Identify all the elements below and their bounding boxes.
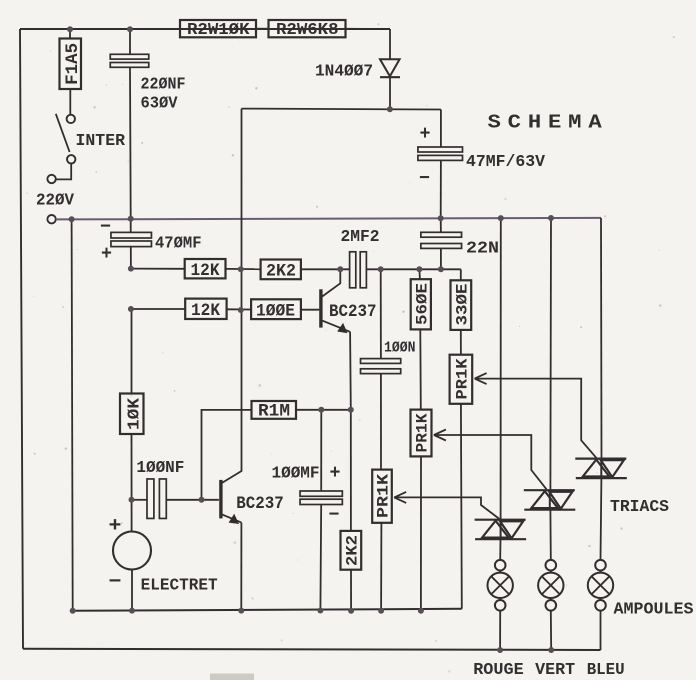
svg-text:1ØØE: 1ØØE	[256, 302, 295, 322]
svg-text:R2W1ØK: R2W1ØK	[187, 21, 250, 40]
svg-text:2K2: 2K2	[266, 262, 296, 282]
svg-text:22ØNF: 22ØNF	[141, 76, 186, 95]
svg-text:1ØØMF: 1ØØMF	[272, 465, 320, 484]
svg-text:PR1K: PR1K	[414, 413, 432, 452]
svg-text:+: +	[101, 243, 112, 265]
svg-text:1ØØN: 1ØØN	[384, 340, 416, 357]
svg-text:+: +	[420, 123, 431, 145]
svg-text:ROUGE: ROUGE	[473, 661, 524, 680]
svg-text:1N4ØØ7: 1N4ØØ7	[315, 63, 373, 82]
svg-text:−: −	[329, 504, 340, 526]
svg-text:F1A5: F1A5	[63, 43, 83, 85]
svg-text:BC237: BC237	[329, 302, 377, 322]
svg-text:56ØE: 56ØE	[414, 283, 432, 325]
svg-text:BLEU: BLEU	[587, 661, 625, 680]
svg-text:R2W6K8: R2W6K8	[276, 21, 339, 40]
svg-text:TRIACS: TRIACS	[610, 498, 669, 517]
svg-text:SCHEMA: SCHEMA	[488, 112, 609, 134]
svg-text:ELECTRET: ELECTRET	[141, 577, 218, 596]
svg-text:47MF/63V: 47MF/63V	[466, 153, 546, 172]
svg-text:BC237: BC237	[236, 494, 283, 514]
svg-text:12K: 12K	[191, 301, 220, 321]
svg-text:1ØØNF: 1ØØNF	[136, 459, 184, 478]
svg-text:22N: 22N	[466, 240, 499, 259]
svg-text:AMPOULES: AMPOULES	[614, 600, 694, 619]
svg-text:33ØE: 33ØE	[454, 284, 472, 326]
svg-text:PR1K: PR1K	[454, 358, 472, 399]
svg-text:63ØV: 63ØV	[141, 95, 179, 114]
svg-text:22ØV: 22ØV	[36, 192, 75, 211]
svg-text:+: +	[109, 515, 122, 538]
svg-text:INTER: INTER	[76, 131, 126, 150]
svg-text:−: −	[100, 216, 111, 238]
svg-text:VERT: VERT	[535, 661, 575, 680]
svg-text:12K: 12K	[191, 261, 220, 281]
svg-text:PR1K: PR1K	[375, 473, 393, 518]
svg-text:2K2: 2K2	[344, 535, 362, 566]
svg-text:−: −	[109, 571, 122, 594]
svg-text:−: −	[419, 168, 430, 190]
svg-text:1ØK: 1ØK	[125, 397, 144, 430]
svg-text:2MF2: 2MF2	[341, 228, 380, 247]
svg-text:47ØMF: 47ØMF	[155, 235, 202, 254]
svg-text:+: +	[330, 462, 341, 484]
svg-text:R1M: R1M	[258, 402, 290, 422]
